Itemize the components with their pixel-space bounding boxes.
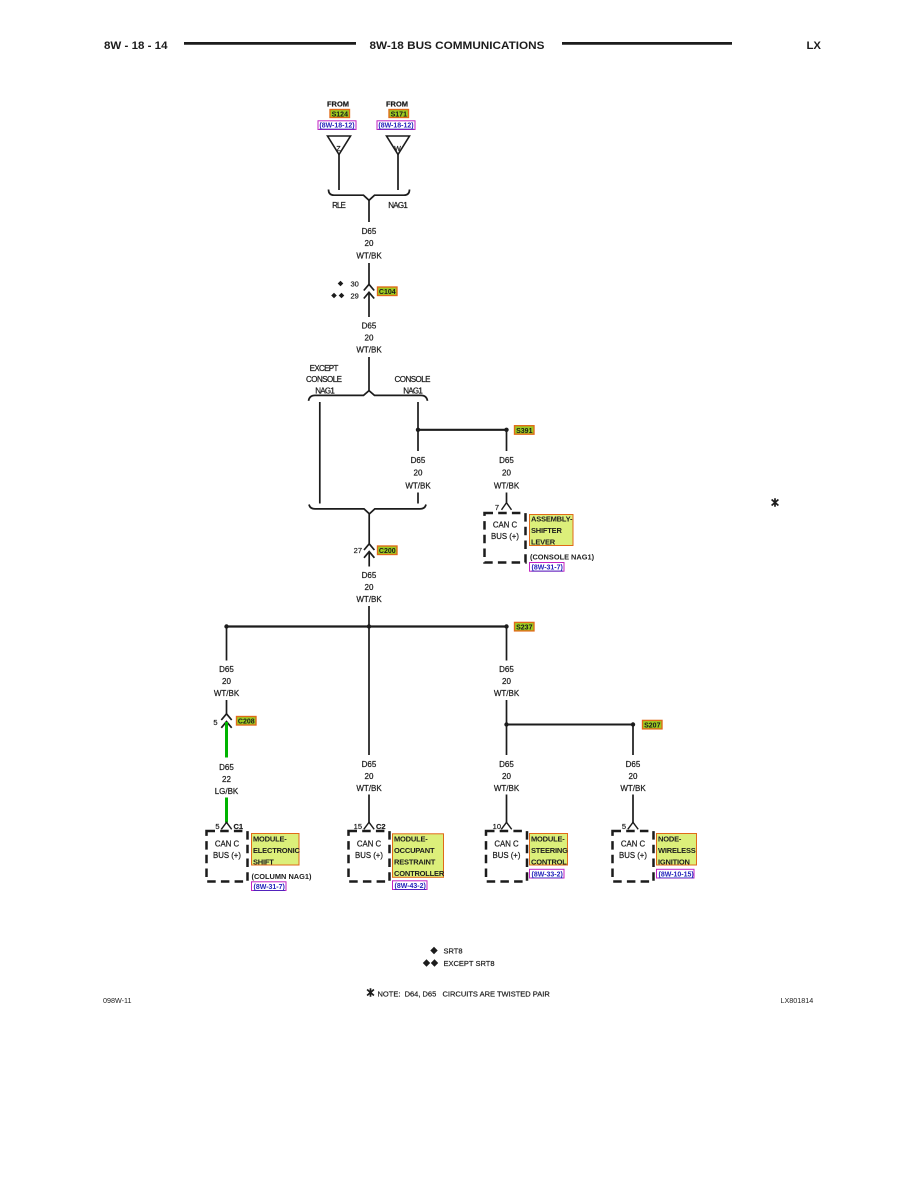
label MODULE-OCCUPANT RESTRAINT CONTROLLER highlight bbox=[393, 834, 445, 878]
in-line connector C208 pin 5 bbox=[213, 714, 231, 728]
svg-text:SRT8: SRT8 bbox=[444, 947, 463, 956]
off-page connector triangle Z bbox=[328, 136, 351, 155]
svg-text:30: 30 bbox=[351, 280, 359, 289]
svg-text:D65: D65 bbox=[362, 227, 377, 236]
wire below merge brace bbox=[368, 514, 370, 544]
svg-text:S171: S171 bbox=[391, 111, 407, 118]
wire into shifter lever bbox=[506, 493, 508, 503]
svg-text:EXCEPT SRT8: EXCEPT SRT8 bbox=[444, 959, 495, 968]
wire above C208 bbox=[226, 700, 228, 714]
link (8W-10-15) module4 bbox=[657, 869, 695, 878]
svg-text:W: W bbox=[394, 146, 401, 153]
svg-text:CAN C: CAN C bbox=[493, 520, 518, 529]
svg-text:CONSOLE: CONSOLE bbox=[306, 375, 342, 384]
twisted pair note marker (right margin) bbox=[772, 498, 779, 506]
svg-text:CAN C: CAN C bbox=[494, 839, 519, 848]
wire right branch below junction bbox=[417, 430, 419, 451]
wire label D65 20 WT/BK (steering) bbox=[494, 760, 520, 793]
wire left branch (EXCEPT CONSOLE NAG1) bbox=[319, 402, 321, 504]
wire label D65 20 WT/BK (S391 drop) bbox=[494, 456, 520, 490]
svg-text:8W-18 BUS COMMUNICATIONS: 8W-18 BUS COMMUNICATIONS bbox=[370, 40, 545, 52]
label FROM (left) bbox=[327, 100, 349, 109]
svg-text:(8W-10-15): (8W-10-15) bbox=[659, 872, 694, 879]
link (8W-31-7) module1 bbox=[252, 882, 287, 891]
svg-text:BUS (+): BUS (+) bbox=[491, 532, 519, 541]
svg-text:WT/BK: WT/BK bbox=[214, 689, 240, 698]
svg-text:(CONSOLE NAG1): (CONSOLE NAG1) bbox=[530, 553, 595, 562]
svg-text:20: 20 bbox=[365, 333, 374, 342]
component box MODULE-ELECTRONIC SHIFT bbox=[207, 831, 248, 882]
wire below S207 (wireless ignition) bbox=[632, 725, 634, 756]
svg-text:(8W-18-12): (8W-18-12) bbox=[378, 123, 413, 130]
green wire below C208 bbox=[225, 722, 228, 758]
svg-text:8W - 18 - 14: 8W - 18 - 14 bbox=[104, 40, 168, 52]
svg-text:Z: Z bbox=[336, 146, 341, 153]
label MODULE-STEERING CONTROL highlight bbox=[530, 834, 569, 867]
svg-text:WT/BK: WT/BK bbox=[356, 346, 382, 355]
svg-text:EXCEPT: EXCEPT bbox=[310, 364, 339, 373]
wire below S207 (steering) bbox=[506, 725, 508, 756]
svg-text:C2: C2 bbox=[376, 822, 386, 831]
link (8W-43-2) module2 bbox=[393, 881, 428, 890]
label ASSEMBLY-SHIFTER LEVER highlight bbox=[530, 515, 574, 547]
svg-text:20: 20 bbox=[414, 468, 423, 477]
header rule right bbox=[562, 42, 732, 45]
connector C208 highlight bbox=[237, 717, 257, 726]
svg-text:FROM: FROM bbox=[327, 100, 349, 109]
wire S391 drop bbox=[506, 430, 508, 451]
svg-text:FROM: FROM bbox=[386, 100, 408, 109]
joining brace RLE/NAG1 bbox=[329, 190, 410, 201]
wire label D65 20 WT/BK (middle branch) bbox=[356, 760, 382, 793]
pin 7 bbox=[495, 503, 512, 512]
component box MODULE-STEERING CONTROL bbox=[486, 831, 527, 882]
wire into C2 bbox=[368, 795, 370, 823]
wire label D65 20 WT/BK (left branch) bbox=[214, 665, 240, 698]
svg-text:LEVER: LEVER bbox=[531, 538, 556, 547]
green wire into C1 bbox=[225, 798, 228, 823]
wire from triangle W bbox=[397, 155, 399, 191]
splice S237 highlight bbox=[515, 622, 535, 631]
svg-text:LG/BK: LG/BK bbox=[215, 787, 239, 796]
in-line connector C104 chevrons bbox=[364, 284, 374, 317]
svg-text:C1: C1 bbox=[234, 822, 244, 831]
svg-text:27: 27 bbox=[354, 546, 362, 555]
wire above split brace bbox=[368, 357, 370, 391]
svg-text:15: 15 bbox=[354, 822, 362, 831]
svg-text:WT/BK: WT/BK bbox=[494, 481, 520, 490]
wire middle branch from S237 bbox=[368, 627, 370, 756]
svg-text:RESTRAINT: RESTRAINT bbox=[394, 858, 436, 867]
pin 10 bbox=[493, 822, 512, 831]
wire right branch upper bbox=[417, 402, 419, 430]
wire above S207 bbox=[506, 700, 508, 725]
label EXCEPT CONSOLE NAG1 bbox=[306, 364, 342, 396]
wire right branch to joining brace bbox=[417, 493, 419, 504]
svg-text:WT/BK: WT/BK bbox=[356, 595, 382, 604]
in-line connector C200 pin 27 bbox=[354, 544, 375, 558]
svg-text:MODULE-: MODULE- bbox=[394, 835, 428, 844]
svg-text:NAG1: NAG1 bbox=[388, 201, 408, 210]
header rule left bbox=[184, 42, 356, 45]
svg-text:22: 22 bbox=[222, 775, 231, 784]
wire label D65 20 WT/BK (2) bbox=[356, 321, 382, 354]
link (8W-18-12) right bbox=[377, 121, 415, 130]
svg-text:098W-11: 098W-11 bbox=[103, 996, 132, 1005]
svg-text:10: 10 bbox=[493, 822, 501, 831]
svg-text:29: 29 bbox=[351, 292, 359, 301]
svg-text:BUS (+): BUS (+) bbox=[355, 851, 383, 860]
svg-text:D65: D65 bbox=[411, 456, 426, 465]
svg-text:D65: D65 bbox=[362, 760, 377, 769]
svg-text:NAG1: NAG1 bbox=[403, 387, 423, 396]
svg-text:(COLUMN NAG1): (COLUMN NAG1) bbox=[252, 872, 312, 881]
footnote NOTE text bbox=[378, 990, 551, 999]
svg-text:(8W-31-7): (8W-31-7) bbox=[532, 565, 563, 572]
svg-text:20: 20 bbox=[502, 772, 511, 781]
svg-text:20: 20 bbox=[629, 772, 638, 781]
label NODE-WIRELESS IGNITION highlight bbox=[657, 834, 697, 867]
svg-text:C208: C208 bbox=[238, 719, 255, 726]
footnote diamonds (29) bbox=[331, 292, 359, 301]
svg-text:5: 5 bbox=[622, 822, 626, 831]
svg-text:NAG1: NAG1 bbox=[315, 387, 335, 396]
footnote diamond SRT8 bbox=[430, 947, 462, 956]
svg-text:20: 20 bbox=[222, 677, 231, 686]
svg-text:BUS (+): BUS (+) bbox=[213, 851, 241, 860]
link (8W-18-12) left bbox=[318, 121, 356, 130]
svg-text:MODULE-: MODULE- bbox=[531, 834, 565, 843]
pin 15 C2 bbox=[354, 822, 386, 831]
svg-text:WT/BK: WT/BK bbox=[620, 784, 646, 793]
svg-text:CAN C: CAN C bbox=[357, 839, 382, 848]
svg-text:BUS (+): BUS (+) bbox=[493, 851, 521, 860]
svg-text:D65: D65 bbox=[499, 456, 514, 465]
splice S207 junction bbox=[504, 722, 635, 726]
svg-text:S124: S124 bbox=[332, 111, 348, 118]
svg-text:D65: D65 bbox=[219, 763, 234, 772]
plate number right bbox=[781, 996, 814, 1005]
svg-text:7: 7 bbox=[495, 503, 499, 512]
splitting brace bbox=[309, 391, 428, 401]
header page number bbox=[104, 40, 168, 52]
svg-text:S207: S207 bbox=[644, 723, 660, 730]
label NAG1 bbox=[388, 201, 408, 210]
wire below C200 bbox=[368, 552, 370, 567]
svg-text:OCCUPANT: OCCUPANT bbox=[394, 846, 435, 855]
connector C200 highlight bbox=[378, 546, 398, 555]
wire into steering module bbox=[506, 795, 508, 823]
wire into S237 bus bbox=[368, 606, 370, 627]
pin 5 (wireless ignition) bbox=[622, 822, 638, 831]
link (8W-31-7) shifter bbox=[530, 563, 565, 572]
wire below brace bbox=[368, 200, 370, 222]
svg-text:20: 20 bbox=[502, 468, 511, 477]
svg-text:NODE-: NODE- bbox=[658, 834, 682, 843]
wire label D65 20 WT/BK (right branch lower) bbox=[494, 665, 520, 698]
svg-text:20: 20 bbox=[365, 239, 374, 248]
wire label D65 20 WT/BK (below C200) bbox=[356, 571, 382, 604]
svg-text:C200: C200 bbox=[379, 548, 396, 555]
svg-text:CAN C: CAN C bbox=[621, 839, 646, 848]
svg-text:WT/BK: WT/BK bbox=[356, 784, 382, 793]
link (8W-33-2) module3 bbox=[530, 869, 565, 878]
svg-text:20: 20 bbox=[365, 772, 374, 781]
wire from triangle Z bbox=[338, 155, 340, 191]
footnote diamond (30) bbox=[338, 280, 359, 289]
wire label D65 20 WT/BK (1) bbox=[356, 227, 382, 260]
splice S237 bus bbox=[224, 624, 508, 628]
svg-text:WIRELESS: WIRELESS bbox=[658, 846, 696, 855]
splice S171 highlight bbox=[389, 110, 409, 119]
svg-text:D65: D65 bbox=[362, 321, 377, 330]
svg-text:(8W-18-12): (8W-18-12) bbox=[319, 123, 354, 130]
svg-text:C104: C104 bbox=[379, 289, 396, 296]
svg-text:20: 20 bbox=[365, 583, 374, 592]
wire above C104 bbox=[368, 263, 370, 284]
svg-text:S237: S237 bbox=[516, 625, 532, 632]
svg-text:CONSOLE: CONSOLE bbox=[395, 375, 431, 384]
svg-text:CONTROLLER: CONTROLLER bbox=[394, 869, 445, 878]
wire into wireless ignition node bbox=[632, 795, 634, 823]
wire label D65 20 WT/BK (right branch) bbox=[405, 456, 431, 490]
svg-text:LX: LX bbox=[807, 40, 822, 52]
wire label D65 20 WT/BK (wireless ignition) bbox=[620, 760, 646, 793]
connector C104 highlight bbox=[378, 287, 398, 296]
svg-text:LX801814: LX801814 bbox=[781, 996, 814, 1005]
wire left branch from S237 bbox=[226, 627, 228, 661]
svg-text:D65: D65 bbox=[219, 665, 234, 674]
svg-text:WT/BK: WT/BK bbox=[356, 251, 382, 260]
footnote diamonds EXCEPT SRT8 bbox=[423, 959, 495, 968]
splice S124 highlight bbox=[330, 110, 350, 119]
svg-text:SHIFTER: SHIFTER bbox=[531, 526, 562, 535]
pin 5 C1 bbox=[215, 822, 243, 831]
svg-text:D65: D65 bbox=[362, 571, 377, 580]
svg-text:RLE: RLE bbox=[332, 201, 346, 210]
svg-text:(8W-33-2): (8W-33-2) bbox=[532, 872, 563, 879]
svg-text:CONTROL: CONTROL bbox=[531, 857, 567, 866]
wire right branch from S237 bbox=[506, 627, 508, 661]
plate number left bbox=[103, 996, 132, 1005]
label (CONSOLE NAG1) bbox=[530, 553, 595, 562]
svg-text:5: 5 bbox=[215, 822, 219, 831]
svg-text:SHIFT: SHIFT bbox=[253, 857, 274, 866]
svg-text:BUS (+): BUS (+) bbox=[619, 851, 647, 860]
joining brace (console/except merge) bbox=[309, 505, 426, 514]
splice S207 highlight bbox=[643, 720, 663, 729]
svg-text:S391: S391 bbox=[516, 428, 532, 435]
svg-text:CAN C: CAN C bbox=[215, 839, 240, 848]
off-page connector triangle W bbox=[387, 136, 410, 155]
label MODULE-ELECTRONIC SHIFT highlight bbox=[252, 834, 301, 867]
component box MODULE-OCCUPANT RESTRAINT CONTROLLER bbox=[349, 831, 390, 882]
svg-text:(8W-43-2): (8W-43-2) bbox=[395, 883, 426, 890]
svg-text:D65: D65 bbox=[499, 760, 514, 769]
wire label D65 22 LG/BK bbox=[215, 763, 239, 796]
svg-text:5: 5 bbox=[213, 718, 217, 727]
label (COLUMN NAG1) bbox=[252, 872, 312, 881]
footnote twisted pair marker bbox=[367, 988, 374, 996]
svg-text:D65: D65 bbox=[626, 760, 641, 769]
component box NODE-WIRELESS IGNITION bbox=[613, 831, 654, 882]
svg-text:IGNITION: IGNITION bbox=[658, 857, 690, 866]
svg-text:STEERING: STEERING bbox=[531, 846, 568, 855]
svg-text:D65: D65 bbox=[499, 665, 514, 674]
header LX bbox=[807, 40, 822, 52]
svg-text:ELECTRONIC: ELECTRONIC bbox=[253, 846, 301, 855]
svg-text:NOTE: D64, D65 CIRCUITS ARE: NOTE: D64, D65 CIRCUITS ARE TWISTED PAIR bbox=[378, 990, 551, 999]
label CONSOLE NAG1 bbox=[395, 375, 431, 395]
svg-text:WT/BK: WT/BK bbox=[494, 784, 520, 793]
header title bbox=[370, 40, 545, 52]
svg-text:(8W-31-7): (8W-31-7) bbox=[254, 884, 285, 891]
svg-text:WT/BK: WT/BK bbox=[494, 689, 520, 698]
splice S391 highlight bbox=[515, 426, 535, 435]
svg-text:WT/BK: WT/BK bbox=[405, 481, 431, 490]
label FROM (right) bbox=[386, 100, 408, 109]
svg-text:20: 20 bbox=[502, 677, 511, 686]
component box ASSEMBLY-SHIFTER LEVER bbox=[485, 513, 526, 563]
splice S391 junction bbox=[416, 428, 509, 432]
svg-text:ASSEMBLY-: ASSEMBLY- bbox=[531, 515, 573, 524]
svg-text:MODULE-: MODULE- bbox=[253, 834, 287, 843]
label RLE bbox=[332, 201, 346, 210]
